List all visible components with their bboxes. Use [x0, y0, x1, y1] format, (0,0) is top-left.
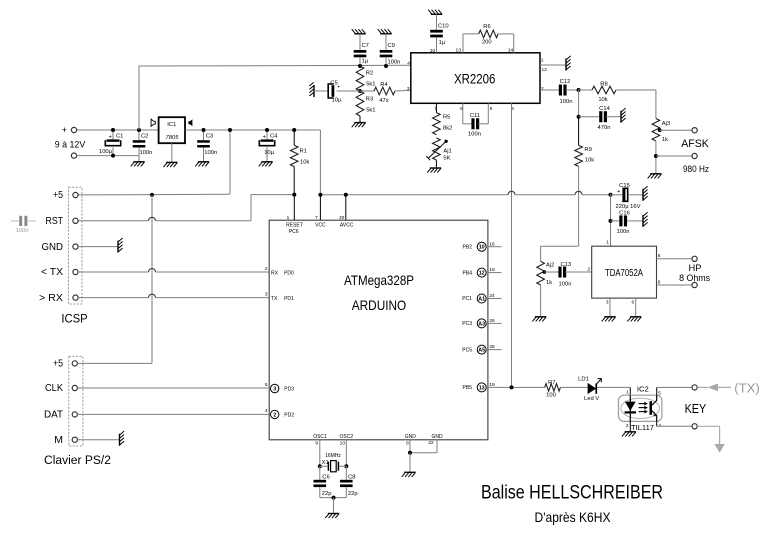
- terminal PS2 +5: [53, 358, 77, 370]
- mcu U1 ATMega328P box: [269, 220, 488, 440]
- wire CLK to PD3: [77, 387, 269, 389]
- svg-text:RX: RX: [271, 270, 279, 276]
- terminal PS2 DAT: [44, 409, 77, 421]
- svg-text:100µ: 100µ: [99, 149, 113, 155]
- resistor R6 200: [463, 24, 514, 46]
- svg-text:PB4: PB4: [463, 270, 473, 276]
- svg-text:8 Ohms: 8 Ohms: [679, 273, 710, 283]
- ground pin1/12: [566, 56, 571, 71]
- svg-text:C2: C2: [141, 134, 148, 140]
- svg-text:+: +: [62, 125, 67, 135]
- capacitor C16: [611, 210, 643, 235]
- svg-text:10: 10: [430, 48, 436, 54]
- wire TDA pin6 ground: [632, 298, 636, 316]
- terminal ICSP GND: [42, 241, 79, 253]
- svg-text:R6: R6: [483, 24, 490, 30]
- svg-text:PD3: PD3: [284, 387, 294, 393]
- ground C14: [621, 108, 626, 123]
- pin 2 TDA label: [588, 266, 591, 272]
- svg-text:16MHz: 16MHz: [325, 453, 341, 459]
- svg-text:C3: C3: [206, 134, 213, 140]
- svg-text:10: 10: [340, 440, 346, 446]
- svg-text:2: 2: [588, 266, 591, 272]
- svg-text:PC6: PC6: [289, 229, 299, 235]
- svg-text:100n: 100n: [16, 228, 29, 234]
- ground C15: [643, 186, 648, 201]
- svg-text:5: 5: [265, 382, 268, 388]
- wire IC2 pin5 to KEY: [657, 387, 692, 395]
- svg-text:Led V: Led V: [584, 396, 599, 402]
- label ICSP: [61, 311, 87, 325]
- pin1 RESET labels: [286, 215, 303, 235]
- svg-text:470n: 470n: [598, 125, 611, 131]
- ground crystal: [325, 514, 339, 519]
- pin7 VCC labels: [315, 215, 326, 229]
- wire OSC2 drop: [344, 440, 348, 468]
- svg-text:+: +: [617, 189, 620, 195]
- wire raw supply riser: [138, 66, 140, 130]
- pin18 PB4: [463, 267, 502, 277]
- ground C2: [131, 162, 145, 167]
- svg-text:C10: C10: [438, 24, 449, 30]
- svg-text:GND: GND: [42, 241, 64, 253]
- svg-text:14: 14: [508, 48, 514, 54]
- terminal KEY top: [692, 385, 697, 390]
- svg-text:TX: TX: [271, 296, 278, 302]
- ground ICSP: [118, 238, 123, 253]
- svg-text:PB5: PB5: [463, 385, 473, 391]
- capacitor C11: [463, 103, 489, 137]
- svg-text:5k1: 5k1: [366, 81, 375, 87]
- svg-text:5K: 5K: [443, 155, 450, 161]
- svg-text:Aj3: Aj3: [662, 121, 670, 127]
- wire - input: [77, 155, 139, 157]
- node RESET: [292, 193, 296, 197]
- svg-text:1: 1: [541, 57, 544, 63]
- svg-text:5: 5: [490, 106, 493, 112]
- terminal KEY bottom: [692, 424, 697, 429]
- svg-text:X1: X1: [322, 460, 329, 466]
- svg-text:ATMega328P: ATMega328P: [344, 272, 414, 288]
- wire DAT to PD2: [77, 413, 269, 415]
- svg-text:5k1: 5k1: [366, 107, 375, 113]
- connector PS2 box: [69, 356, 83, 446]
- svg-text:D'après K6HX: D'après K6HX: [535, 509, 612, 525]
- svg-text:5: 5: [658, 390, 661, 396]
- wire +5 down to PS2: [151, 195, 153, 364]
- svg-text:ICSP: ICSP: [61, 311, 87, 325]
- wire GND to ground: [78, 246, 117, 248]
- svg-text:Aj1: Aj1: [443, 148, 451, 154]
- svg-text:PD2: PD2: [284, 413, 294, 419]
- wire pin1/12 to ground: [540, 57, 565, 72]
- wire KEY bottom grey: [697, 426, 719, 444]
- wire OSC1 drop: [318, 440, 322, 468]
- capacitor C1: [99, 128, 123, 158]
- crystal X1 16MHz: [320, 453, 347, 472]
- trimmer Aj2 1k: [537, 261, 555, 286]
- svg-text:C11: C11: [470, 113, 480, 119]
- svg-text:2: 2: [541, 86, 544, 92]
- pin 14 label: [508, 48, 514, 54]
- svg-text:Clavier PS/2: Clavier PS/2: [44, 453, 111, 467]
- wire R8 to Aj3: [655, 90, 657, 119]
- pin9 OSC1 labels: [313, 434, 327, 447]
- ground ATMega GND: [402, 472, 416, 477]
- svg-text:C7: C7: [362, 43, 369, 49]
- svg-text:26: 26: [489, 318, 495, 324]
- ground Aj3: [648, 174, 662, 179]
- terminal HP bottom: [692, 282, 697, 287]
- svg-text:RESET: RESET: [286, 223, 303, 229]
- capacitor 100n grey: [11, 216, 36, 234]
- pin4 PD2 labels: [265, 408, 294, 418]
- svg-text:XR2206: XR2206: [454, 71, 496, 86]
- svg-text:8: 8: [406, 440, 409, 446]
- pin 4 label: [407, 60, 410, 66]
- wire PS2 +5: [77, 362, 152, 364]
- wire top rail to XR2206 pin4: [139, 64, 411, 67]
- svg-text:C4: C4: [270, 134, 278, 140]
- svg-text:R8: R8: [600, 82, 607, 88]
- svg-text:13: 13: [479, 385, 485, 391]
- svg-text:C16: C16: [619, 210, 630, 216]
- capacitor C9: [380, 34, 401, 68]
- pin16 PB2: [463, 241, 502, 251]
- svg-text:4: 4: [407, 60, 410, 66]
- ground IC2: [622, 432, 636, 437]
- wire ICSP +5: [78, 193, 230, 197]
- pin28 PC5: [462, 344, 501, 354]
- terminal PS2 CLK: [45, 382, 77, 394]
- svg-text:A5: A5: [478, 348, 485, 354]
- svg-text:4: 4: [265, 408, 268, 414]
- svg-text:C13: C13: [560, 262, 571, 268]
- pin 13 label: [456, 48, 462, 54]
- svg-text:R3: R3: [366, 96, 373, 102]
- svg-text:ARDUINO: ARDUINO: [352, 297, 407, 313]
- wire R9 down to Aj2: [578, 166, 580, 246]
- svg-text:10µ: 10µ: [264, 150, 274, 156]
- svg-text:PB2: PB2: [463, 244, 473, 250]
- svg-text:RST: RST: [46, 215, 64, 227]
- arrow TX grey: [697, 384, 731, 392]
- wire GND join: [408, 451, 437, 455]
- wire GND pin22 drop: [436, 440, 438, 453]
- wire +5 rail to right: [318, 191, 612, 196]
- svg-text:16: 16: [489, 241, 495, 247]
- svg-text:3: 3: [606, 299, 609, 305]
- svg-text:2: 2: [273, 412, 276, 418]
- op-amp U2 XR2206 box: [411, 53, 540, 104]
- wire 5V output rail: [185, 129, 320, 131]
- svg-text:A3: A3: [478, 321, 485, 327]
- regulator IC1 7805: [151, 117, 192, 143]
- svg-text:1µ: 1µ: [439, 40, 446, 46]
- svg-text:2: 2: [265, 266, 268, 272]
- svg-text:7805: 7805: [166, 135, 180, 141]
- svg-text:100n: 100n: [388, 59, 401, 65]
- svg-text:24: 24: [489, 293, 495, 299]
- svg-text:C14: C14: [599, 106, 610, 112]
- svg-text:C6: C6: [322, 474, 329, 480]
- wire C16/TDA drop: [609, 195, 613, 246]
- svg-text:1: 1: [287, 215, 290, 221]
- pin 6 label: [460, 106, 463, 112]
- wire GND pin8 drop: [409, 440, 411, 453]
- capacitor C6 22p: [314, 466, 332, 497]
- pin 10 label: [430, 48, 436, 54]
- ground C5: [309, 82, 314, 97]
- terminal ICSP RX: [39, 292, 78, 304]
- svg-text:20: 20: [339, 215, 345, 221]
- svg-text:(TX): (TX): [734, 382, 760, 396]
- terminal HP top: [692, 256, 697, 261]
- svg-text:GND: GND: [431, 434, 443, 440]
- svg-text:PC3: PC3: [462, 321, 472, 327]
- capacitor C8 22p: [340, 466, 358, 497]
- diode LD1 LedV: [578, 377, 601, 402]
- capacitor C14: [577, 90, 621, 131]
- svg-text:10k: 10k: [598, 97, 607, 103]
- svg-text:PD1: PD1: [284, 296, 294, 302]
- ground PS2 M: [120, 431, 125, 446]
- pin22 GND labels: [428, 434, 443, 446]
- pin26 PC3: [462, 318, 501, 328]
- svg-text:220µ 16V: 220µ 16V: [616, 204, 641, 210]
- pin 7 label: [434, 106, 437, 112]
- pin20 AVCC labels: [339, 215, 354, 229]
- ground Aj1: [427, 168, 441, 173]
- ground C4: [259, 162, 273, 167]
- svg-text:100n: 100n: [617, 229, 630, 235]
- wire to crystal ground: [333, 498, 335, 513]
- ground Aj2: [532, 317, 546, 322]
- svg-text:12: 12: [542, 67, 548, 73]
- wire LD1 to IC2 pin1: [597, 387, 630, 395]
- pin 1 TDA label: [606, 240, 609, 246]
- svg-text:LD1: LD1: [578, 377, 589, 383]
- svg-text:R2: R2: [366, 71, 373, 77]
- terminal ICSP TX: [41, 266, 78, 278]
- svg-text:KEY: KEY: [685, 402, 707, 416]
- svg-text:AFSK: AFSK: [681, 138, 709, 150]
- svg-text:R1: R1: [300, 148, 307, 154]
- svg-text:3: 3: [407, 86, 410, 92]
- wire RST: [78, 217, 251, 221]
- wire R9 to Aj2 top: [541, 246, 579, 261]
- svg-text:GND: GND: [405, 434, 417, 440]
- wire AVCC drop: [345, 195, 347, 221]
- pin 3 label: [407, 86, 410, 92]
- svg-text:1µ: 1µ: [362, 59, 369, 65]
- wire RESET pin drop: [293, 195, 295, 221]
- subtitle D'apres K6HX: [535, 509, 612, 525]
- svg-text:Balise HELLSCHREIBER: Balise HELLSCHREIBER: [481, 483, 663, 504]
- svg-text:6: 6: [632, 299, 635, 305]
- pin2 RX PD0 labels: [265, 266, 294, 277]
- svg-text:200: 200: [482, 40, 492, 46]
- svg-text:22: 22: [428, 440, 434, 446]
- svg-text:> RX: > RX: [39, 292, 63, 304]
- svg-text:OSC1: OSC1: [313, 434, 327, 440]
- ground C3: [195, 162, 209, 167]
- svg-text:PD0: PD0: [284, 270, 294, 276]
- svg-text:10µ: 10µ: [332, 97, 342, 103]
- trimmer Aj3 1k: [652, 119, 670, 144]
- wire RST riser: [251, 195, 294, 221]
- wire pin13 riser: [462, 34, 464, 53]
- svg-text:9: 9: [315, 440, 318, 446]
- pin5 PD3 labels: [265, 382, 294, 393]
- svg-text:100n: 100n: [140, 150, 153, 156]
- wire TDA pin8 to HP: [657, 279, 693, 285]
- svg-text:1k: 1k: [546, 280, 552, 286]
- pin 9 label: [511, 106, 514, 112]
- pin8 GND labels: [405, 434, 417, 447]
- ground TDA pin3: [602, 317, 616, 322]
- pin3 TX PD1 labels: [265, 291, 294, 302]
- terminal PS2 M: [54, 434, 77, 446]
- label Clavier PS/2: [44, 453, 111, 467]
- trimmer Aj1 5K: [426, 138, 451, 168]
- label 980 Hz: [683, 164, 709, 174]
- wire crystal caps join: [320, 496, 347, 500]
- svg-text:PC1: PC1: [462, 296, 472, 302]
- capacitor C2: [133, 128, 153, 161]
- svg-text:10k: 10k: [300, 159, 309, 165]
- svg-text:1k: 1k: [662, 137, 668, 143]
- label KEY: [685, 402, 707, 416]
- resistor R7 100: [545, 380, 588, 398]
- capacitor C15 220u: [611, 183, 643, 210]
- svg-text:< TX: < TX: [41, 266, 63, 278]
- wire RX to PD1: [78, 294, 269, 297]
- svg-text:9 à 12V: 9 à 12V: [55, 140, 86, 151]
- svg-text:2: 2: [626, 423, 629, 429]
- svg-text:AVCC: AVCC: [340, 223, 354, 229]
- wire to AFSK bottom terminal: [656, 155, 692, 157]
- svg-text:47x: 47x: [379, 98, 388, 104]
- svg-text:R4: R4: [380, 82, 388, 88]
- resistor R9 10k: [575, 117, 594, 167]
- wire VCC drop: [319, 195, 321, 221]
- optocoupler IC2 TIL117: [619, 385, 662, 432]
- svg-text:7: 7: [315, 215, 318, 221]
- svg-text:980 Hz: 980 Hz: [683, 164, 709, 174]
- terminal AFSK bottom: [692, 153, 697, 158]
- svg-text:IC2: IC2: [637, 385, 649, 394]
- svg-text:18: 18: [489, 267, 495, 273]
- svg-text:100n: 100n: [468, 132, 481, 138]
- wire Aj3 wiper to AFSK: [660, 129, 692, 131]
- resistor R2 5k1: [356, 66, 375, 91]
- svg-text:R5: R5: [443, 114, 450, 120]
- pin19 PB5: [463, 382, 496, 392]
- resistor R3 5k1: [356, 91, 375, 122]
- svg-text:22p: 22p: [322, 491, 332, 497]
- ground above C9: [378, 29, 392, 34]
- amp U3 TDA7052A box: [592, 246, 657, 298]
- svg-text:HP: HP: [689, 263, 702, 273]
- svg-text:28: 28: [489, 344, 495, 350]
- ground TDA pin6: [627, 317, 641, 322]
- svg-text:22p: 22p: [348, 491, 358, 497]
- svg-text:R7: R7: [548, 380, 555, 386]
- resistor R4 47x: [360, 82, 411, 104]
- resistor R1 10k: [290, 128, 309, 195]
- wire + input to IC1: [77, 129, 159, 131]
- wire GND to ground: [409, 453, 411, 472]
- svg-text:8: 8: [658, 279, 661, 285]
- svg-text:A1: A1: [478, 296, 485, 302]
- label HP: [689, 263, 702, 273]
- capacitor C7: [354, 34, 369, 68]
- pin 5 label: [490, 106, 493, 112]
- svg-text:C8: C8: [348, 474, 355, 480]
- svg-text:+: +: [337, 84, 340, 90]
- svg-text:1: 1: [626, 389, 629, 395]
- terminal - (9-12V input): [71, 153, 76, 158]
- svg-text:CLK: CLK: [45, 382, 63, 394]
- svg-text:C1: C1: [116, 134, 123, 140]
- svg-text:+5: +5: [53, 358, 63, 370]
- pin 2 label: [541, 86, 544, 92]
- label 9 a 12V: [55, 140, 86, 151]
- svg-text:12: 12: [479, 271, 485, 277]
- terminal ICSP RST: [46, 215, 79, 227]
- ground above C7: [352, 29, 366, 34]
- svg-text:IC1: IC1: [167, 122, 176, 128]
- ground above C10: [428, 10, 442, 15]
- terminal AFSK top: [692, 128, 697, 133]
- wire 5V down to +5 row: [228, 128, 232, 194]
- terminal ICSP +5: [53, 189, 78, 201]
- label ARDUINO: [352, 297, 407, 313]
- wire pin9 down to PB5 row: [511, 103, 513, 387]
- label AFSK: [681, 138, 709, 150]
- svg-text:VCC: VCC: [315, 223, 326, 229]
- resistor R8 10k: [579, 82, 656, 104]
- wire IC2 pin2 ground: [629, 421, 631, 431]
- svg-text:C9: C9: [388, 43, 395, 49]
- pin10 OSC2 labels: [339, 434, 353, 447]
- capacitor C13: [544, 262, 591, 288]
- wire Aj3 bottom: [654, 141, 658, 173]
- capacitor C3: [197, 128, 217, 161]
- connector ICSP box: [69, 187, 83, 304]
- svg-text:100n: 100n: [204, 150, 217, 156]
- svg-text:C15: C15: [619, 183, 630, 189]
- label 8 Ohms: [679, 273, 710, 283]
- svg-text:OSC2: OSC2: [339, 434, 353, 440]
- wire TX to PD0: [78, 269, 269, 273]
- svg-text:10k: 10k: [585, 158, 594, 164]
- svg-text:13: 13: [456, 48, 462, 54]
- ground C16: [643, 212, 648, 227]
- terminal + (9-12V input): [62, 125, 77, 135]
- svg-text:5: 5: [658, 253, 661, 259]
- wire PB5 to R7: [488, 385, 545, 389]
- label (TX) grey: [734, 382, 760, 396]
- ground IC1: [164, 143, 178, 167]
- pin24 PC1: [462, 293, 501, 303]
- wire M to ground: [77, 439, 119, 441]
- node R2/R3/R4/C5: [358, 89, 362, 93]
- wire Aj2 bottom: [540, 285, 542, 316]
- svg-text:Aj2: Aj2: [546, 262, 554, 268]
- wire TDA pin5 to HP: [657, 253, 693, 259]
